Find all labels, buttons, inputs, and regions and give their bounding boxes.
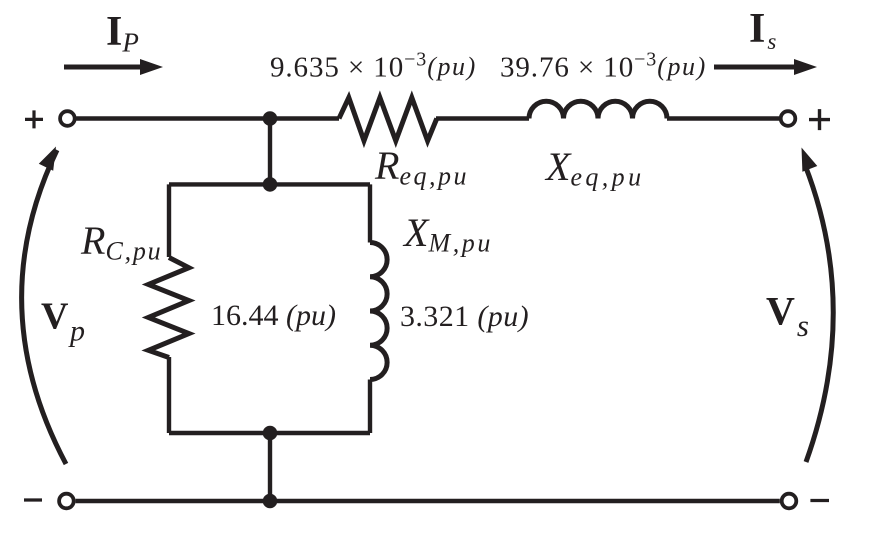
node D (junction on bottom rail) bbox=[263, 494, 278, 509]
voltage arrow Vp (curved, left) bbox=[22, 147, 66, 465]
resistor Req,pu (series) bbox=[339, 98, 437, 141]
inductor Xeq,pu (series) bbox=[529, 101, 667, 118]
wire: right side of shunt loop below XM bbox=[368, 380, 372, 434]
terminal: secondary + (open circle, top right) bbox=[781, 111, 796, 126]
wire: right side of shunt loop above XM bbox=[368, 184, 372, 242]
terminal: primary - (open circle, bottom left) bbox=[59, 494, 74, 509]
polarity - (primary bottom) bbox=[24, 498, 42, 501]
svg-text:3.321 (pu): 3.321 (pu) bbox=[400, 300, 529, 333]
polarity - (secondary bottom) bbox=[810, 499, 829, 502]
polarity + (secondary top) bbox=[809, 109, 830, 130]
wire: inductor Xeq to secondary terminal bbox=[667, 116, 779, 120]
wire: node A down to node B (top of shunt loop) bbox=[268, 119, 272, 185]
polarity + (primary top) bbox=[25, 110, 43, 128]
wire: node C down to node D on bottom rail bbox=[268, 433, 272, 501]
svg-text:39.76 × 10−3(pu): 39.76 × 10−3(pu) bbox=[500, 49, 707, 84]
inductor XM,pu (shunt) bbox=[370, 243, 387, 380]
resistor RC,pu (shunt) bbox=[148, 258, 189, 358]
terminal: secondary - (open circle, bottom right) bbox=[782, 494, 797, 509]
voltage arrow Vs (curved, right) bbox=[802, 148, 834, 463]
current arrow IP bbox=[64, 59, 163, 75]
wire: bottom rail bbox=[76, 499, 780, 503]
terminal: primary + (open circle, top left) bbox=[60, 111, 75, 126]
wire: left side of shunt loop above RC bbox=[167, 184, 171, 257]
wire: top left from primary terminal to node A bbox=[76, 116, 270, 120]
node C (bottom of shunt loop) bbox=[263, 426, 278, 441]
wire: resistor Req to inductor Xeq bbox=[436, 116, 529, 120]
wire: left side of shunt loop below RC bbox=[167, 357, 171, 433]
node B (top of shunt loop) bbox=[263, 177, 278, 192]
wire: top of shunt loop bbox=[169, 182, 370, 186]
wire: bottom of shunt loop bbox=[169, 431, 370, 435]
node A (junction on top rail) bbox=[263, 111, 278, 126]
wire: node A to resistor Req bbox=[270, 116, 339, 120]
svg-text:9.635 × 10−3(pu): 9.635 × 10−3(pu) bbox=[270, 49, 477, 84]
svg-text:16.44 (pu): 16.44 (pu) bbox=[211, 299, 336, 332]
current arrow IS bbox=[714, 59, 817, 75]
